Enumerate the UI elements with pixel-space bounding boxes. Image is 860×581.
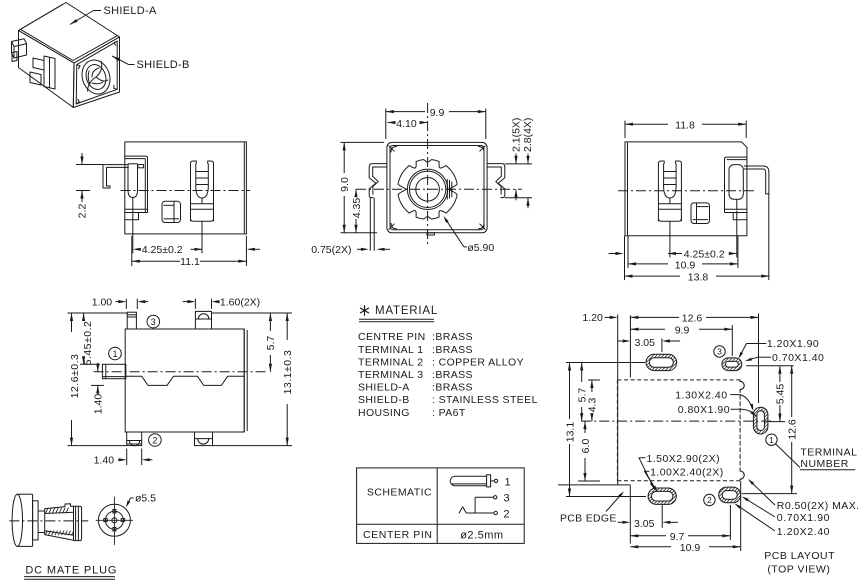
dim 13.8: [625, 275, 681, 277]
schematic contact 2 with spring: [494, 511, 497, 514]
plug cone barrel: [45, 504, 74, 509]
svg-text:4.10: 4.10: [396, 118, 417, 130]
svg-text:TERMINAL: TERMINAL: [800, 446, 857, 458]
bottom view - body outline: [125, 329, 244, 432]
front view barrel circles: [407, 169, 447, 209]
svg-text:2.1(5X): 2.1(5X): [511, 118, 523, 152]
front view - outer shield square: [387, 142, 487, 232]
center line side view left: [121, 190, 251, 192]
svg-text:1: 1: [112, 349, 117, 359]
terminal slot left: [127, 164, 129, 190]
dim 3.05 pcb bottom: [618, 521, 622, 523]
dim 5.45 pcb: [746, 365, 794, 367]
center line pcb layout: [581, 420, 771, 422]
svg-text:CENTER PIN: CENTER PIN: [363, 529, 433, 541]
dim 5.45±0.2: [83, 313, 85, 321]
dim 12.6 pcb right: [791, 366, 793, 417]
svg-text::BRASS: :BRASS: [432, 369, 473, 381]
plug flange disc: [33, 501, 39, 540]
svg-text:9.9: 9.9: [430, 107, 445, 119]
svg-text:12.6: 12.6: [787, 419, 799, 440]
dim 2.1(5X) and 2.8(4X): [505, 163, 532, 165]
side view left - body outline: [125, 142, 247, 234]
svg-text::BRASS: :BRASS: [432, 344, 473, 356]
pad terminal 2 top left: [646, 354, 677, 370]
svg-text::BRASS: :BRASS: [432, 331, 473, 343]
dim 4.35 front: [355, 189, 357, 197]
svg-text:SHIELD-A: SHIELD-A: [104, 5, 157, 17]
svg-text:9.0: 9.0: [339, 177, 351, 192]
dim 4.3 pcb: [588, 379, 600, 381]
terminal 2 lead wire left: [103, 165, 128, 188]
svg-text::BRASS: :BRASS: [432, 382, 473, 394]
svg-text:13.1±0.3: 13.1±0.3: [282, 350, 294, 395]
bottom housing tab front view: [427, 233, 434, 235]
dc plug front view circle: [98, 504, 130, 536]
schematic contact 3: [494, 496, 497, 499]
svg-text:ø2.5mm: ø2.5mm: [460, 529, 503, 541]
svg-text:1.60(2X): 1.60(2X): [220, 296, 260, 308]
dim 1.60(2X): [183, 301, 189, 303]
dim 5.7 bottom view: [269, 313, 271, 331]
svg-text:ø5.5: ø5.5: [135, 493, 156, 505]
svg-text:1.20X2.40: 1.20X2.40: [777, 526, 830, 538]
svg-text:1.40: 1.40: [94, 455, 115, 467]
svg-text:3: 3: [717, 347, 722, 357]
svg-text:HOUSING: HOUSING: [358, 407, 410, 419]
pad terminal 1 right: [753, 407, 768, 434]
svg-text:10.9: 10.9: [675, 259, 696, 271]
dim 13.1 pcb: [566, 362, 574, 364]
extension lines bottom view right: [212, 312, 293, 314]
svg-text:4.3: 4.3: [587, 398, 599, 413]
lip arrow left of side view right: [609, 253, 621, 255]
front view center lines: [427, 103, 429, 246]
bent lead wire right view: [744, 166, 769, 194]
svg-text:0.70X1.40: 0.70X1.40: [772, 352, 824, 364]
svg-text:1.20: 1.20: [582, 312, 603, 324]
dim 12.6 pcb top: [630, 316, 679, 318]
svg-text:MATERIAL: MATERIAL: [375, 305, 438, 317]
dim 10.9 right: [628, 263, 668, 265]
terminal 1 spring housing: [191, 161, 197, 221]
terminal 3 square: [162, 201, 181, 222]
svg-text:1.30X2.40: 1.30X2.40: [675, 389, 727, 401]
svg-text:ø5.90: ø5.90: [467, 242, 494, 254]
dim 4.10 front: [388, 122, 394, 124]
svg-text:TERMINAL 2: TERMINAL 2: [358, 356, 423, 368]
svg-text:R0.50(2X) MAX.: R0.50(2X) MAX.: [777, 500, 860, 512]
dim 4.25±0.2 right: [668, 252, 676, 255]
svg-text:4.35: 4.35: [351, 198, 363, 219]
svg-text:12.6±0.3: 12.6±0.3: [69, 354, 81, 399]
extension lines below side view left: [132, 198, 134, 254]
svg-text:5.45±0.2: 5.45±0.2: [82, 321, 94, 366]
svg-text:PCB EDGE: PCB EDGE: [560, 513, 617, 525]
svg-text:SHIELD-B: SHIELD-B: [358, 394, 410, 406]
svg-text:3: 3: [504, 493, 510, 505]
svg-text:3.05: 3.05: [634, 518, 655, 530]
svg-text:: PA6T: : PA6T: [432, 407, 466, 419]
schematic table: [357, 468, 525, 544]
center line bottom view: [94, 371, 269, 373]
pcb body dashed outline: [617, 379, 740, 381]
terminal 3 tab top: [127, 312, 136, 329]
svg-text:2: 2: [504, 508, 510, 520]
svg-text:5.7: 5.7: [265, 336, 277, 351]
center line dc plug: [9, 520, 88, 522]
dim 12.6±0.3: [71, 313, 73, 332]
dim 10.9 pcb: [630, 546, 671, 548]
svg-text:2: 2: [152, 435, 157, 445]
circled terminal numbers: [147, 315, 160, 328]
svg-text:SHIELD-B: SHIELD-B: [137, 59, 190, 71]
svg-text:TERMINAL 1: TERMINAL 1: [358, 344, 423, 356]
dim 6.0 pcb: [578, 480, 600, 482]
dim 9.9 pcb: [630, 328, 665, 330]
svg-text:PCB LAYOUT: PCB LAYOUT: [764, 550, 835, 562]
dim 9.7 pcb: [630, 535, 666, 537]
svg-text:11.1: 11.1: [180, 256, 200, 268]
dim 2.2: [76, 164, 103, 166]
plug collar ring: [74, 506, 82, 540]
svg-text:DC MATE PLUG: DC MATE PLUG: [25, 565, 117, 577]
svg-text:1: 1: [505, 476, 511, 488]
dim 9.0 front: [341, 141, 385, 143]
terminal 3 square right view: [691, 203, 710, 224]
plug neck: [38, 510, 45, 512]
svg-text:: COPPER ALLOY: : COPPER ALLOY: [432, 356, 524, 368]
iso terminal slots on left face: [44, 56, 55, 89]
svg-text:2.8(4X): 2.8(4X): [522, 118, 534, 152]
center line side view right: [618, 190, 755, 192]
terminal 2 tab bottom: [127, 432, 142, 446]
svg-text:0.70X1.90: 0.70X1.90: [777, 512, 830, 524]
svg-text:1: 1: [769, 435, 774, 445]
iso left face: [19, 31, 75, 108]
side view right - body outline: [625, 142, 747, 236]
svg-text:TERMINAL 3: TERMINAL 3: [358, 369, 423, 381]
extension lines bottom view left: [68, 312, 128, 314]
svg-text:0.75(2X): 0.75(2X): [311, 244, 351, 256]
pad terminal 2 bottom right: [719, 487, 741, 503]
dim 11.8: [624, 121, 626, 138]
side view right - front flange: [725, 157, 747, 212]
dc mate plug side view: [12, 494, 22, 546]
pad bottom left: [648, 488, 676, 504]
mount clip right front view: [487, 164, 505, 198]
pcb edge lines: [617, 315, 619, 485]
svg-text:SHIELD-A: SHIELD-A: [358, 382, 410, 394]
mount clip left front view: [369, 164, 387, 198]
svg-text:1.40: 1.40: [92, 394, 104, 415]
dim 13.1±0.3: [286, 313, 288, 340]
svg-text:NUMBER: NUMBER: [800, 458, 849, 470]
front view gear shaped housing: [398, 160, 457, 219]
circled pad numbers pcb: [714, 346, 725, 357]
housing parting line with keys: [125, 376, 244, 385]
dim 5.7 pcb: [566, 362, 645, 364]
dim 1.40 notch: [91, 384, 104, 386]
svg-text:13.8: 13.8: [688, 272, 709, 284]
svg-text:6.0: 6.0: [580, 439, 592, 454]
svg-text:9.9: 9.9: [675, 324, 690, 336]
barrel hatching: [46, 508, 49, 514]
schematic symbol plug pin 1: [450, 476, 486, 486]
terminal 1 bracket with bent lead: [729, 165, 743, 200]
svg-text:0.80X1.90: 0.80X1.90: [678, 404, 730, 416]
svg-text:: STAINLESS STEEL: : STAINLESS STEEL: [432, 394, 538, 406]
dim 9.9 front: [385, 109, 387, 139]
iso front circle opening: [78, 56, 115, 97]
dim 11.1: [132, 260, 180, 262]
front view corner tabs: [389, 146, 397, 152]
iso view connector body: [19, 3, 120, 64]
dim 3.05 pcb top: [618, 340, 622, 342]
R0.50 core pin notches: [740, 381, 744, 389]
terminal tab bottom right: [195, 432, 213, 446]
iso left tab shield-B latch: [12, 39, 27, 58]
svg-text:SCHEMATIC: SCHEMATIC: [367, 486, 432, 498]
svg-text:1.00: 1.00: [92, 296, 113, 308]
svg-text:10.9: 10.9: [680, 542, 701, 554]
svg-text:1.20X1.90: 1.20X1.90: [767, 338, 819, 350]
svg-text:2: 2: [707, 495, 712, 505]
iso front face shield-B: [73, 37, 119, 108]
svg-text:(TOP VIEW): (TOP VIEW): [767, 564, 830, 576]
svg-text:5.45: 5.45: [775, 384, 787, 405]
terminal 1 center pin bottom view: [102, 364, 125, 378]
svg-text:1.50X2.90(2X): 1.50X2.90(2X): [647, 453, 721, 465]
side view left - front flange: [125, 156, 148, 212]
svg-text:3.05: 3.05: [635, 337, 656, 349]
lip arrow right of side view: [248, 248, 260, 250]
extension lines below side view right: [669, 221, 671, 257]
svg-text:13.1: 13.1: [564, 422, 576, 443]
terminal spring housing right view: [676, 161, 682, 221]
svg-text:4.25±0.2: 4.25±0.2: [142, 244, 183, 256]
svg-text:1.00X2.40(2X): 1.00X2.40(2X): [650, 466, 724, 478]
svg-text:2.2: 2.2: [77, 204, 89, 219]
svg-text:12.6: 12.6: [682, 313, 703, 325]
terminal tab top right: [195, 311, 211, 329]
svg-text:3: 3: [151, 317, 156, 327]
pad terminal 3: [722, 358, 742, 371]
svg-text:11.8: 11.8: [675, 120, 695, 132]
svg-text:CENTRE PIN: CENTRE PIN: [358, 331, 426, 343]
